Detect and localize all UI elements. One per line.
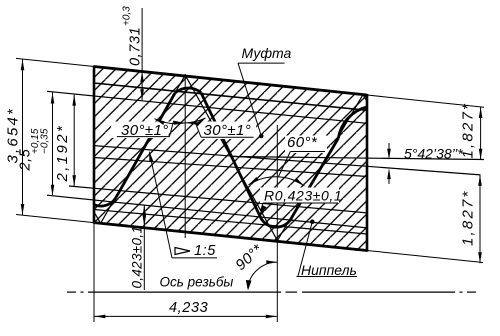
dim 0731 line [141,8,143,100]
line D mid 2 [94,158,367,177]
line A coupling crest [94,83,367,110]
crest arc right big [338,107,367,138]
line E 2192 line [69,186,367,213]
dim 0423 line [143,205,145,290]
line F 0423 truncation [47,195,367,228]
thread axis centerline [67,291,476,293]
taper leader arrow [149,151,153,162]
bottom edge extension left [16,215,94,223]
svg-text:0,731: 0,731 [128,27,144,66]
dim 1827 lower line [479,175,481,263]
svg-text:1,827*: 1,827* [460,102,477,159]
mufta leader [238,63,261,135]
mufta underline [238,62,285,64]
angle 54238 arrows [387,149,391,160]
svg-text:30°±1°: 30°±1° [121,122,169,139]
nippel leader [298,222,312,277]
30 arc left arrow at axis [174,121,185,125]
svg-text:1:5: 1:5 [194,243,216,259]
hatched body section [94,67,367,253]
root arc left small [94,197,116,206]
R label leader [261,203,264,211]
30 right underline [201,136,254,138]
svg-text:Ось резьбы: Ось резьбы [160,275,234,290]
svg-text:0,423±0,1: 0,423±0,1 [130,226,145,289]
svg-text:+0,3: +0,3 [122,6,133,26]
groove axis vertical / 4233 extension [276,125,278,322]
60 underline [290,151,325,153]
mufta leader dot [259,134,264,139]
bottom edge (thick) [94,223,367,251]
white label backgrounds [109,122,171,139]
30 arc right arrow at axis [186,121,197,125]
30 left underline [117,136,170,138]
90 arc arrow top [266,260,277,264]
90 arc arrow bottom [246,280,252,291]
crest arc big tooth [175,88,201,93]
nippel underline [297,276,358,278]
top edge extension left [16,58,94,66]
bottom edge extension right [367,251,483,263]
thin sharp thread profile zigzag [94,75,367,240]
thick flank 2 [201,93,260,216]
dim 4233 line [94,315,276,317]
60 arc arrow left [249,177,259,185]
60 arc arrow right [294,178,304,186]
tooth axis vertical line [184,74,186,238]
30 label leader left [169,121,173,137]
line B 0731 truncation [47,91,367,123]
svg-text:30°±1°: 30°±1° [204,122,252,139]
dim 25 line [52,93,54,196]
svg-text:1,827*: 1,827* [460,189,477,246]
taper leader [150,153,173,258]
svg-text:4,233: 4,233 [169,300,208,316]
svg-text:Муфта: Муфта [242,45,292,61]
taper 1:5 symbol [175,248,190,255]
dim 1827 upper line [480,107,482,160]
thick flank 3 [292,138,338,217]
dim 2192 line [73,95,75,187]
left edge (thick) [93,66,96,224]
root arc V groove R0423 [260,216,292,227]
top edge (thick) [94,67,367,96]
30 deg arc left [155,119,186,124]
dim 3654 line [22,59,24,215]
right edge (thick) [366,94,369,252]
60 deg arc [249,177,305,186]
horizontal angle reference line [231,157,484,160]
line C taper pitch line [94,146,481,175]
svg-text:Ниппель: Ниппель [301,262,357,278]
svg-text:2,192*: 2,192* [54,124,71,183]
thick flank 1 [116,93,175,197]
taper label underline [172,257,217,259]
svg-text:5°42’38’’*: 5°42’38’’* [404,146,463,162]
R leader arrow [259,205,267,216]
R underline [263,202,338,204]
60 label leader [279,152,291,177]
line G root tangent [94,210,367,235]
svg-text:60°*: 60°* [287,134,318,151]
svg-text:−0,35: −0,35 [40,128,51,154]
30 label leader right [195,121,201,137]
30 arc right arrow at flank [196,118,206,126]
svg-text:R0,423±0,1: R0,423±0,1 [264,188,342,204]
30 arc left arrow at flank [155,119,165,125]
90 deg arc [248,262,278,288]
svg-text:90°*: 90°* [232,241,266,274]
30 deg arc right [186,118,206,123]
top edge extension right [367,95,484,107]
left edge extension down for 4233 [93,223,95,322]
nippel leader dot [310,219,315,224]
